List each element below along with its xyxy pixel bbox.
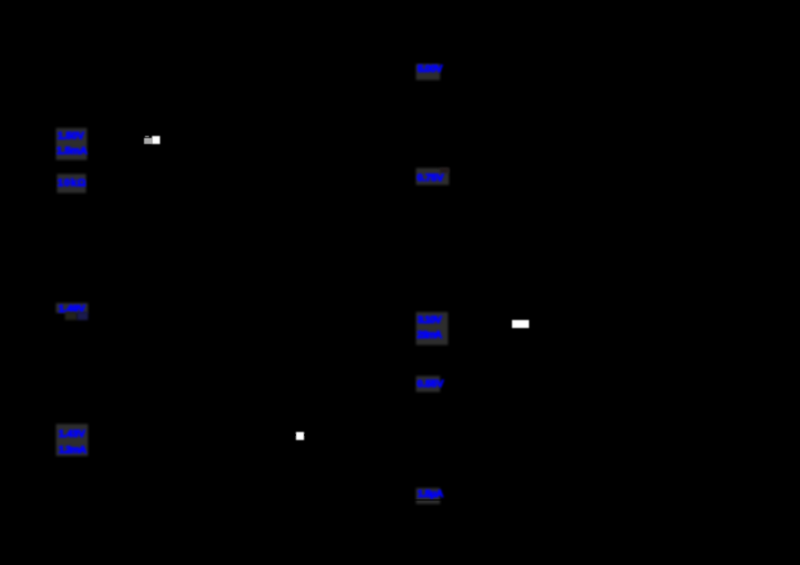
wire R4 to R5 (464, 340, 466, 374)
transistor Q1 value line 1 (59, 428, 85, 440)
voltage source V2 value (418, 63, 442, 75)
component U1 body (white part) (152, 136, 160, 144)
switch S1 body (512, 320, 529, 328)
capacitor C1 symbol (455, 486, 475, 530)
switch SW1 body (296, 432, 304, 441)
wire V2 to R3 (464, 90, 466, 165)
resistor R4 value label box (416, 312, 448, 345)
resistor R4 value line 1 (418, 314, 441, 326)
wire R3 to R4 (464, 188, 466, 310)
ground (455, 530, 475, 538)
resistor R3 symbol (460, 165, 470, 188)
wire switch S1 to right (529, 322, 560, 324)
resistor R5 symbol (460, 374, 470, 397)
wire to transistor Q1 (109, 324, 111, 420)
capacitor C1 value label box (416, 488, 440, 504)
resistor R3 value label box (416, 168, 449, 185)
wire left branch middle (109, 193, 111, 295)
wire left branch lower (109, 450, 111, 500)
voltage source V1 value line 2 (57, 145, 88, 157)
wire R5 to C1 (464, 394, 466, 486)
switch SW1 wire stub (276, 434, 324, 436)
resistor R3 value (417, 172, 443, 184)
resistor R4 symbol (460, 310, 470, 340)
capacitor C1 value (418, 488, 443, 500)
wire left branch upper (109, 40, 111, 120)
resistor R2 symbol (105, 295, 115, 324)
resistor R1 value label box (57, 174, 87, 194)
voltage source V1 value line 1 (58, 130, 84, 142)
resistor R1 value (58, 177, 87, 189)
transistor Q1 value line 2 (59, 444, 86, 456)
voltage source V2 symbol (453, 60, 477, 90)
resistor R5 value (417, 378, 443, 390)
voltage source V1 value label box (56, 128, 87, 160)
component U1 body marks (145, 136, 150, 137)
resistor R2 value label box (56, 303, 88, 313)
resistor R1 symbol (105, 160, 115, 193)
resistor R2 value line 1 (59, 303, 85, 315)
transistor Q1 symbol (100, 430, 120, 450)
voltage source V2 value label box (416, 64, 440, 80)
resistor R2 value line 2 (dim) (65, 312, 77, 321)
wire node to switch S1 (465, 322, 512, 324)
resistor R5 value label box (416, 376, 440, 392)
resistor R4 value line 2 (417, 329, 441, 341)
transistor Q1 value label box (56, 424, 88, 456)
voltage source V1 symbol (98, 120, 122, 160)
component U1 body (gray part) (144, 138, 152, 144)
